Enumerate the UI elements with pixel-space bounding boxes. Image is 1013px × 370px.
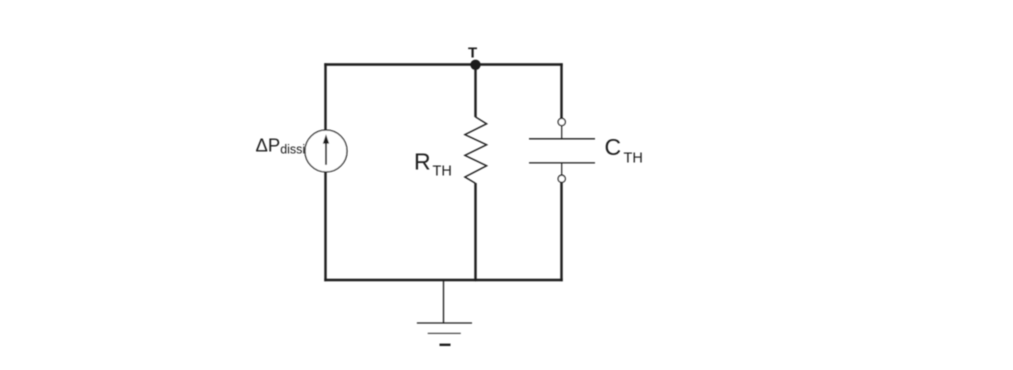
svg-text:R: R [414, 149, 431, 175]
svg-text:T: T [468, 45, 477, 62]
wire right vertical upper segment (top corner to capacitor) [560, 63, 562, 118]
wire top horizontal from left corner to right corner [324, 63, 562, 65]
svg-text:C: C [605, 134, 622, 160]
capacitor CTH (two plates with open terminal circles) [529, 118, 595, 182]
svg-text:TH: TH [433, 164, 452, 180]
wire resistor branch lower (resistor down to bottom wire) [474, 183, 476, 281]
ground [417, 323, 472, 345]
wire left vertical upper segment (top corner to current source) [324, 63, 326, 129]
svg-text:TH: TH [624, 151, 643, 167]
wire resistor branch upper (node T down to resistor) [474, 65, 476, 118]
wire left vertical lower segment (current source to bottom corner) [324, 172, 326, 281]
wire bottom horizontal [324, 279, 562, 281]
node T (junction dot) [470, 60, 480, 70]
wire right vertical lower segment (capacitor to bottom corner) [560, 182, 562, 281]
resistor RTH zigzag [465, 117, 487, 183]
current source ΔPdissi (circle with up arrow) [305, 130, 347, 172]
wire ground stem [443, 281, 445, 323]
